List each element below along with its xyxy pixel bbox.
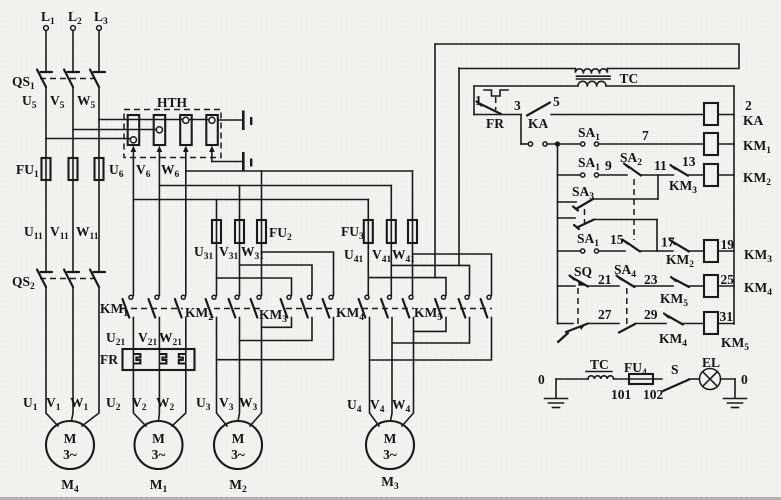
wire KM5 output a [414,318,447,332]
wire FR drop [473,86,475,115]
svg-text:V21: V21 [138,330,158,348]
holder 1 [128,115,140,145]
svg-text:25: 25 [721,272,735,287]
coil KM3 [704,237,772,265]
svg-text:0: 0 [538,372,545,387]
wire phase W5 [98,87,100,271]
svg-text:FR: FR [486,116,504,131]
selector SA3 pole a [558,184,659,211]
label U5 V5 W5 [22,93,96,111]
svg-text:SA1: SA1 [577,231,599,249]
svg-text:23: 23 [644,272,658,287]
wire TC primary tap 1 [434,44,436,278]
wire KM5 feed a [368,278,446,296]
wire tap W5 to HTH [99,119,209,121]
svg-text:3: 3 [514,98,521,113]
wire L3 drop [98,31,100,72]
holder 4 [206,115,218,145]
svg-text:V11: V11 [50,224,69,242]
svg-text:M: M [384,431,397,446]
relay FR trip symbol [484,90,508,110]
label U1 V1 W1 [23,395,89,413]
node L1 terminal [41,9,55,30]
motor M3 [366,421,414,492]
contactor KM5 main contacts [414,295,492,323]
svg-text:W5: W5 [77,93,96,111]
svg-text:W11: W11 [76,224,99,242]
rung 15 contacts [558,231,705,270]
switch QS1 [12,70,105,93]
ground right [724,379,747,408]
fuse FU1 [16,158,104,180]
label U3 V3 W3 [196,395,258,413]
wire FU2 feeds [217,171,262,295]
svg-text:U41: U41 [344,247,364,265]
motor M2 [214,421,262,495]
wire dist W phase [186,170,413,172]
svg-text:L1: L1 [41,9,55,27]
svg-text:101: 101 [611,387,632,402]
wire KM5 output c [370,318,492,361]
svg-text:U21: U21 [106,330,126,348]
rung 27 contacts [558,307,705,349]
wire SA3 drop to rung 15 [656,220,658,252]
svg-text:V1: V1 [46,395,61,413]
wire U6 down [132,160,134,295]
svg-text:KA: KA [743,113,764,128]
svg-text:3~: 3~ [231,447,245,462]
wire TC primary tap 2 [458,68,460,265]
svg-text:FU1: FU1 [16,162,39,180]
wire KM5 feed c [413,254,492,295]
relay FR heater block [100,349,195,370]
linkage SA4 dashed [626,288,628,324]
switch S [663,362,689,391]
svg-text:V3: V3 [219,395,234,413]
svg-text:U2: U2 [106,395,121,413]
ground brush 1 [218,111,253,131]
svg-text:27: 27 [598,307,612,322]
svg-text:FU4: FU4 [624,360,647,378]
label U21 V21 W21 [106,330,182,348]
svg-text:W4: W4 [392,397,411,415]
wire KM2 outputs to motor M2 [217,318,262,427]
wire phase U5 [45,87,47,271]
svg-text:KM3: KM3 [669,178,697,196]
ground left [545,379,568,408]
wire L2 drop [72,31,74,72]
svg-text:SA1: SA1 [578,155,600,173]
svg-text:13: 13 [682,154,696,169]
svg-text:5: 5 [553,94,560,109]
wire node11 drop [657,175,659,199]
svg-text:V5: V5 [50,93,65,111]
rung 9 contacts [558,150,705,196]
svg-text:QS1: QS1 [12,74,35,92]
wire KM4 outputs to motor M3 [370,318,414,427]
svg-text:V2: V2 [132,395,147,413]
wire to FU4 [614,378,662,380]
svg-text:U4: U4 [347,397,362,415]
contact FR NC [474,93,521,131]
svg-text:19: 19 [721,237,735,252]
svg-text:FR: FR [100,352,118,367]
inductor TC secondary 2 [586,357,614,379]
svg-text:KM4: KM4 [336,305,364,323]
wire FR to motor M1 [133,370,185,426]
svg-text:M3: M3 [381,474,399,492]
svg-text:U6: U6 [109,162,124,180]
wire tap V5 to HTH [73,129,157,131]
wire TC secondary line [474,85,734,87]
svg-text:M: M [64,431,77,446]
svg-text:29: 29 [644,307,658,322]
brush arrow V6 [157,146,163,161]
svg-text:3~: 3~ [63,447,77,462]
svg-text:L3: L3 [94,9,108,27]
contactor KM4 main contacts [336,295,414,323]
motor M1 [135,421,183,495]
wire V6 down [158,160,160,295]
svg-text:U5: U5 [22,93,37,111]
coil KM5 [704,309,749,353]
wire KM3 output c [217,318,334,360]
svg-text:EL: EL [702,355,720,370]
svg-text:31: 31 [720,309,734,324]
brush arrow 4 [209,146,215,162]
coil KM2 [704,164,771,188]
svg-text:KM4: KM4 [744,280,772,298]
svg-text:FU2: FU2 [269,225,292,243]
scan edge bottom [0,497,781,500]
svg-text:TC: TC [590,357,609,372]
wire to lamp [689,378,700,380]
svg-text:KM5: KM5 [660,291,688,309]
linkage SA2 dashed [633,179,635,240]
wire KM5 feed b [391,265,469,295]
wire TC primary left [459,68,575,70]
svg-text:2: 2 [745,98,752,113]
label U11 V11 W11 [24,224,99,242]
svg-text:TC: TC [620,71,639,86]
label U41 V41 W41 [344,247,415,265]
motor M4 [46,421,94,495]
rung 21 contacts [558,262,705,309]
svg-text:M: M [152,431,165,446]
transformer TC [575,69,638,87]
wire lamp line right [721,378,736,380]
wire TC primary top loop [435,44,739,69]
svg-text:M4: M4 [61,477,79,495]
wire W6 down [185,160,187,295]
wire dist V phase [159,185,391,187]
svg-text:SA1: SA1 [578,125,600,143]
block HTH dashed box [124,95,221,158]
label U31 V31 W31 [194,244,264,262]
node L2 terminal [68,9,82,30]
wire KM3 output b [240,318,313,341]
svg-text:HTH: HTH [157,95,188,110]
svg-text:V6: V6 [136,162,151,180]
svg-text:KM3: KM3 [744,247,772,265]
contact KA NO [514,94,704,131]
svg-text:7: 7 [642,128,649,143]
wire KM3 output a [262,318,292,328]
contactor KM3 main contacts [259,295,334,325]
fuse FU4 [611,360,664,402]
wire lamp line left [556,378,588,380]
label U6 V6 W6 [109,162,180,180]
wire control bus right [733,86,735,324]
label U2 V2 W2 [106,395,175,413]
svg-text:3~: 3~ [152,447,166,462]
svg-text:9: 9 [605,158,612,173]
svg-text:V31: V31 [219,244,239,262]
wire KM3 feed c [262,252,334,295]
svg-text:W3: W3 [239,395,258,413]
svg-text:W21: W21 [159,330,182,348]
svg-text:KM2: KM2 [666,252,694,270]
svg-text:S: S [671,362,679,377]
wire FU3 feeds [368,171,412,295]
linkage SQ dashed [577,288,579,324]
wire phase V5 [72,87,74,271]
svg-text:KM2: KM2 [743,170,771,188]
svg-text:W6: W6 [161,162,180,180]
lamp EL [700,355,721,390]
svg-text:V41: V41 [372,247,392,265]
label U4 V4 W4 [347,397,411,415]
ground brush 2 [212,152,253,172]
svg-text:0: 0 [741,372,748,387]
svg-text:V4: V4 [370,397,385,415]
fuse FU3 [341,220,417,243]
svg-text:U11: U11 [24,224,43,242]
svg-text:FU3: FU3 [341,224,364,242]
contactor KM1 main contacts [100,295,185,319]
node L3 terminal [94,9,108,30]
svg-text:KM3: KM3 [259,307,287,325]
svg-text:KM5: KM5 [721,335,749,353]
wire L1 drop [45,31,47,72]
svg-text:U1: U1 [23,395,38,413]
holder 3 [180,115,192,145]
svg-text:QS2: QS2 [12,274,35,292]
contactor KM2 main contacts [185,295,262,323]
wire dist U phase [133,199,368,201]
wire KM1 outputs to FR [133,318,185,350]
svg-text:21: 21 [598,272,612,287]
brush arrow W6 [183,146,189,161]
wire KM3 feed b [240,265,313,295]
switch QS2 [12,270,105,293]
svg-text:11: 11 [654,158,667,173]
svg-text:L2: L2 [68,9,82,27]
coil KA [704,98,764,128]
wire control bus left [557,144,559,324]
wire node3 drop [520,115,522,145]
svg-text:M1: M1 [150,477,168,495]
wire QS2 to motor M4 [46,287,99,426]
fuse FU2 [212,220,292,243]
svg-text:M: M [232,431,245,446]
svg-text:KA: KA [528,116,549,131]
svg-text:KM1: KM1 [743,138,771,156]
selector SA3 pole b [558,209,658,229]
holder 2 [154,115,166,145]
svg-text:U31: U31 [194,244,214,262]
svg-text:3~: 3~ [383,447,397,462]
svg-text:M2: M2 [229,477,247,495]
wire KM5 output b [392,318,470,344]
rung 7 contacts [521,125,704,147]
svg-text:KM4: KM4 [659,331,687,349]
wire tap U5 to HTH [46,138,131,140]
wire KM3 feed a [217,278,292,295]
svg-text:SQ: SQ [574,264,592,279]
coil KM1 [704,133,771,156]
brush arrow U6 [131,146,137,161]
svg-text:102: 102 [643,387,664,402]
svg-text:SA2: SA2 [620,150,642,168]
svg-text:U3: U3 [196,395,211,413]
coil KM4 [704,272,772,298]
